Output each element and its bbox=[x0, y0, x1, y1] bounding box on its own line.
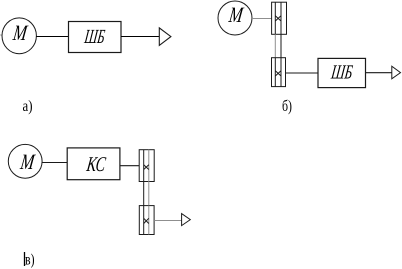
pulley 2 inner left line (scheme b) bbox=[274, 58, 276, 87]
block ShB (scheme a) bbox=[69, 22, 122, 53]
belt left line (scheme v) bbox=[143, 182, 145, 206]
output arrow (scheme b) bbox=[392, 66, 401, 79]
svg-text:а): а) bbox=[23, 98, 33, 115]
pulley 1 outer rect (scheme v) bbox=[139, 150, 154, 182]
pulley 2 outer rect (scheme v) bbox=[139, 206, 154, 235]
pulley 1 shaft-fix cross (scheme b) bbox=[275, 16, 281, 21]
pulley 1 shaft-fix cross (scheme v) bbox=[144, 165, 149, 170]
motor M (scheme a) bbox=[2, 18, 36, 54]
pulley 1 inner right line (scheme v) bbox=[148, 150, 150, 182]
wire KS to pulley 1 (scheme v) bbox=[120, 165, 139, 167]
text caret bbox=[24, 252, 26, 266]
pulley 2 inner left line (scheme v) bbox=[143, 206, 145, 235]
wire motor to ShB (scheme a) bbox=[36, 36, 68, 38]
wire stub left of motor M1 bbox=[0, 34, 2, 36]
wire motor to pulley 1 (scheme b) bbox=[252, 18, 272, 20]
pulley 2 shaft-fix cross (scheme b) bbox=[275, 71, 281, 76]
pulley 2 inner right line (scheme v) bbox=[148, 206, 150, 235]
motor M (scheme v) bbox=[8, 144, 42, 178]
wire motor to KS (scheme v) bbox=[42, 162, 67, 164]
pulley 1 inner left line (scheme v) bbox=[143, 150, 145, 182]
block ShB (scheme b) bbox=[318, 58, 366, 87]
pulley 2 inner right line (scheme b) bbox=[280, 58, 282, 87]
wire ShB to output arrow (scheme b) bbox=[366, 72, 392, 74]
wire pulley 2 to output arrow (scheme v) bbox=[154, 220, 182, 222]
pulley 1 inner right line (scheme b) bbox=[280, 2, 282, 34]
motor M (scheme b) bbox=[218, 1, 252, 35]
output arrow (scheme a) bbox=[159, 28, 171, 46]
svg-text:ШБ: ШБ bbox=[329, 62, 354, 84]
svg-text:ШБ: ШБ bbox=[83, 26, 107, 48]
belt right line (scheme v) bbox=[148, 182, 150, 206]
svg-text:в): в) bbox=[25, 251, 35, 268]
pulley 2 shaft-fix cross (scheme v) bbox=[144, 218, 149, 223]
output arrow (scheme v) bbox=[182, 214, 191, 226]
pulley 1 inner left line (scheme b) bbox=[274, 2, 276, 34]
svg-text:б): б) bbox=[282, 98, 292, 115]
pulley 2 outer rect (scheme b) bbox=[272, 58, 286, 87]
belt right line (scheme b) bbox=[280, 34, 282, 57]
wire ShB to output arrow (scheme a) bbox=[121, 36, 159, 38]
belt left line (scheme b) bbox=[274, 34, 276, 57]
block KS (scheme v) bbox=[67, 148, 120, 180]
wire pulley 2 to ShB (scheme b) bbox=[286, 72, 319, 74]
pulley 1 outer rect (scheme b) bbox=[272, 2, 287, 34]
